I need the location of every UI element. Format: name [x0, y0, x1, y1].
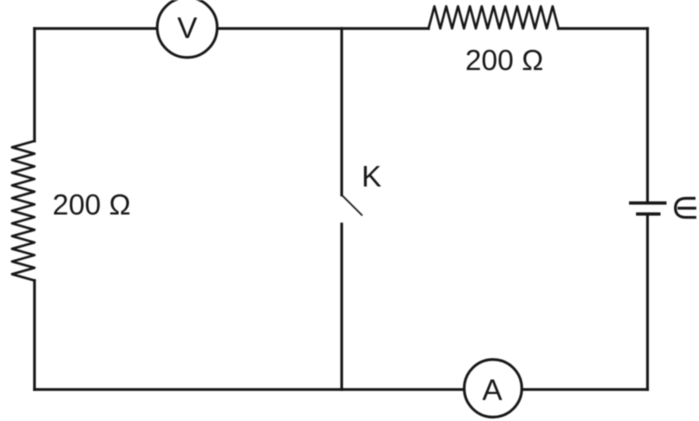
resistor R2 200ohm left zigzag: [12, 141, 35, 281]
resistor R1 200ohm top zigzag: [429, 6, 559, 28]
wire left upper segment: [33, 29, 36, 142]
switch K blade: [342, 195, 362, 215]
svg-text:200 Ω: 200 Ω: [465, 45, 543, 77]
wire left lower segment: [33, 281, 36, 390]
wire middle lower segment: [340, 224, 343, 390]
wire bottom-left segment: [35, 388, 464, 391]
svg-text:V: V: [177, 12, 197, 45]
ammeter A1 circle: [464, 360, 522, 418]
voltmeter V1 circle: [157, 0, 217, 58]
wire middle upper segment: [340, 29, 343, 196]
battery label epsilon: [675, 198, 696, 217]
svg-text:200 Ω: 200 Ω: [53, 190, 131, 222]
wire top-right segment: [559, 27, 648, 30]
wire right upper segment: [646, 29, 649, 202]
wire right lower segment: [646, 216, 649, 390]
svg-text:K: K: [362, 161, 382, 194]
battery E short plate: [636, 212, 661, 215]
battery E long plate: [629, 201, 667, 204]
wire bottom-right segment: [523, 388, 648, 391]
wire top-middle segment: [218, 27, 429, 30]
svg-text:A: A: [482, 374, 502, 407]
wire top-left segment: [35, 27, 157, 30]
